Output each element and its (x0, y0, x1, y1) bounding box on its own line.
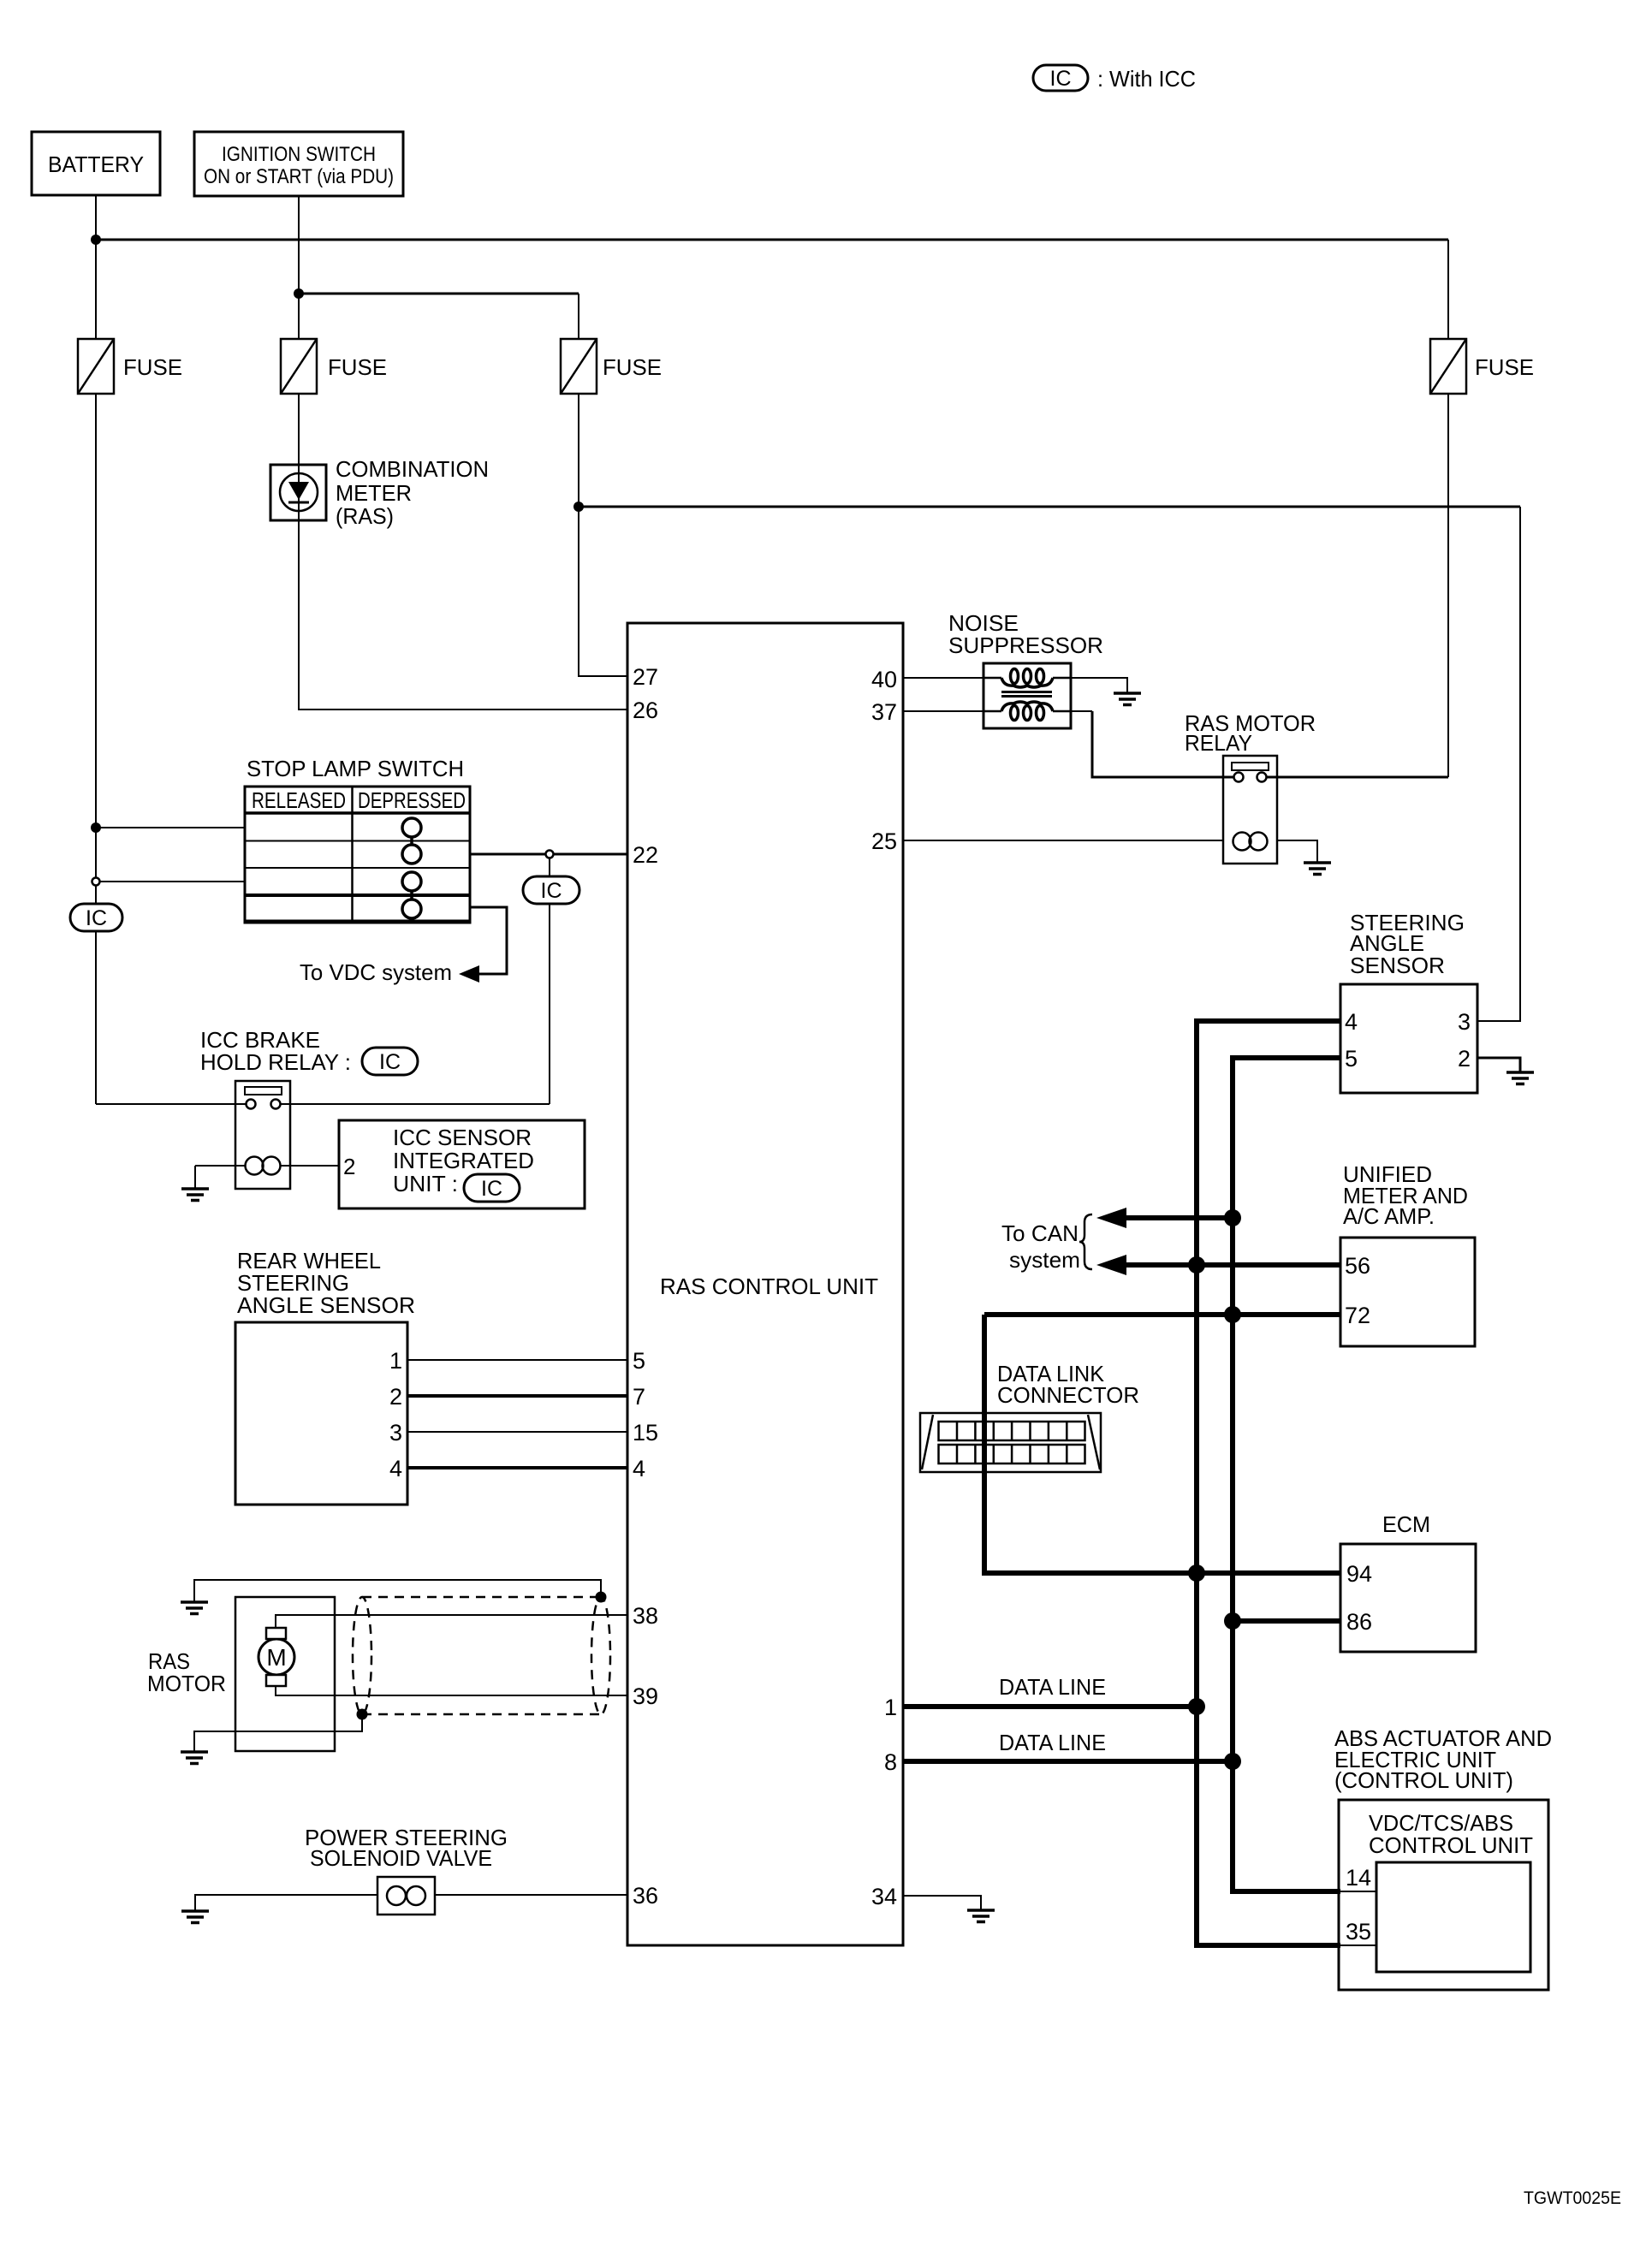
svg-text:ICC SENSOR: ICC SENSOR (393, 1125, 532, 1150)
svg-text:METER: METER (336, 480, 412, 506)
svg-text:DATA LINE: DATA LINE (999, 1674, 1106, 1700)
svg-text:A/C AMP.: A/C AMP. (1343, 1203, 1435, 1229)
svg-text:TGWT0025E: TGWT0025E (1524, 2188, 1621, 2208)
svg-text:IC: IC (379, 1050, 401, 1074)
svg-text:1: 1 (389, 1348, 402, 1374)
svg-text:CONTROL UNIT: CONTROL UNIT (1369, 1832, 1533, 1858)
svg-text:CONNECTOR: CONNECTOR (997, 1382, 1139, 1408)
svg-text:MOTOR: MOTOR (147, 1671, 226, 1696)
svg-text:ANGLE SENSOR: ANGLE SENSOR (237, 1292, 415, 1318)
svg-text:BATTERY: BATTERY (48, 151, 144, 177)
svg-text:To CAN: To CAN (1001, 1220, 1079, 1246)
svg-text:4: 4 (1345, 1009, 1358, 1035)
svg-text:3: 3 (389, 1420, 402, 1446)
svg-text:IC: IC (1050, 67, 1072, 91)
svg-text:2: 2 (1458, 1046, 1471, 1072)
svg-text:ECM: ECM (1382, 1511, 1430, 1537)
svg-text:COMBINATION: COMBINATION (336, 456, 489, 482)
svg-text:FUSE: FUSE (123, 354, 182, 380)
svg-text:15: 15 (633, 1420, 658, 1446)
svg-text:system: system (1009, 1247, 1080, 1273)
svg-text:(CONTROL UNIT): (CONTROL UNIT) (1334, 1767, 1513, 1793)
svg-text:IC: IC (481, 1177, 502, 1201)
svg-text:38: 38 (633, 1603, 658, 1629)
svg-text:DEPRESSED: DEPRESSED (358, 787, 466, 813)
svg-text:RAS CONTROL UNIT: RAS CONTROL UNIT (660, 1274, 878, 1299)
svg-text:1: 1 (884, 1695, 897, 1720)
svg-text:RELAY: RELAY (1185, 730, 1252, 756)
svg-text:(RAS): (RAS) (336, 503, 394, 529)
svg-text:2: 2 (389, 1384, 402, 1410)
svg-text:34: 34 (871, 1884, 897, 1909)
svg-text:RELEASED: RELEASED (252, 787, 346, 813)
svg-text:14: 14 (1346, 1865, 1371, 1891)
svg-text:STOP LAMP SWITCH: STOP LAMP SWITCH (247, 756, 464, 781)
svg-text:35: 35 (1346, 1919, 1371, 1944)
svg-text:86: 86 (1346, 1609, 1372, 1635)
svg-text:94: 94 (1346, 1561, 1372, 1587)
svg-text:UNIT :: UNIT : (393, 1171, 458, 1196)
svg-text:INTEGRATED: INTEGRATED (393, 1148, 534, 1173)
svg-text:39: 39 (633, 1683, 658, 1709)
svg-text:: With ICC: : With ICC (1097, 66, 1196, 92)
svg-text:IC: IC (86, 906, 107, 930)
svg-text:5: 5 (1345, 1046, 1358, 1072)
svg-text:37: 37 (871, 699, 897, 725)
svg-text:ON or START (via PDU): ON or START (via PDU) (204, 165, 394, 188)
svg-text:3: 3 (1458, 1009, 1471, 1035)
svg-text:22: 22 (633, 842, 658, 868)
svg-text:26: 26 (633, 698, 658, 723)
svg-text:M: M (266, 1644, 286, 1671)
svg-text:8: 8 (884, 1749, 897, 1775)
svg-text:40: 40 (871, 667, 897, 692)
svg-text:SUPPRESSOR: SUPPRESSOR (948, 632, 1103, 658)
svg-text:HOLD RELAY :: HOLD RELAY : (200, 1049, 351, 1075)
svg-text:56: 56 (1345, 1253, 1370, 1279)
svg-text:DATA LINE: DATA LINE (999, 1730, 1106, 1755)
svg-text:FUSE: FUSE (603, 354, 662, 380)
svg-text:IC: IC (541, 879, 562, 903)
svg-text:4: 4 (389, 1456, 402, 1481)
svg-text:36: 36 (633, 1883, 658, 1909)
svg-text:25: 25 (871, 828, 897, 854)
svg-text:IGNITION SWITCH: IGNITION SWITCH (222, 143, 376, 166)
svg-text:2: 2 (343, 1154, 355, 1179)
svg-text:7: 7 (633, 1384, 645, 1410)
svg-text:72: 72 (1345, 1303, 1370, 1328)
svg-text:5: 5 (633, 1348, 645, 1374)
svg-text:SOLENOID VALVE: SOLENOID VALVE (310, 1845, 492, 1871)
svg-text:FUSE: FUSE (328, 354, 387, 380)
svg-text:27: 27 (633, 664, 658, 690)
svg-text:4: 4 (633, 1456, 645, 1481)
svg-text:To VDC system: To VDC system (300, 959, 452, 985)
svg-text:FUSE: FUSE (1475, 354, 1534, 380)
svg-text:SENSOR: SENSOR (1350, 953, 1445, 978)
